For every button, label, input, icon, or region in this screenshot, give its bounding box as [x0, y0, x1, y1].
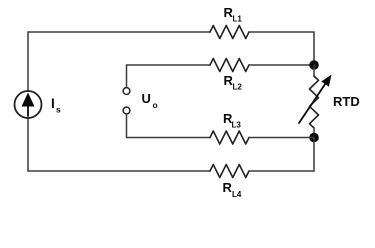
svg-text:R: R [223, 180, 233, 195]
svg-text:s: s [56, 105, 61, 115]
wire: left vertical top segment [27, 32, 29, 91]
label RL1 [224, 5, 243, 24]
svg-text:U: U [142, 91, 151, 106]
wire: node A to RTD top [313, 65, 315, 76]
wire: Uo top riser [126, 65, 128, 88]
current source Is [15, 91, 42, 118]
wire: right vertical node B to bottom rail [313, 138, 315, 172]
label RL2 [224, 73, 243, 92]
wire: RTD bottom to node B [313, 128, 315, 138]
wire: RL2 left lead from Uo riser [127, 64, 211, 66]
resistor RL3 [210, 131, 249, 144]
node B junction dot [309, 133, 319, 143]
label Is [51, 96, 61, 115]
svg-text:L3: L3 [232, 120, 242, 129]
wire: RL2 right lead to node A [249, 64, 314, 66]
terminal: Uo plus [123, 88, 130, 95]
label Uo [142, 91, 158, 110]
resistor RL4 [210, 165, 249, 178]
resistor RL1 [210, 26, 249, 39]
terminal: Uo minus [123, 107, 130, 114]
wire: bottom rail left of RL4 [28, 170, 210, 172]
svg-text:L1: L1 [233, 15, 243, 24]
wire: left vertical bottom segment [27, 118, 29, 171]
RTD variable resistor [299, 75, 332, 129]
node A junction dot [309, 60, 319, 70]
wire: RL3 left lead from Uo riser [127, 137, 211, 139]
wire: top rail right of RL1 [249, 31, 314, 33]
label RL4 [223, 180, 242, 199]
wire: top rail left of RL1 [28, 31, 210, 33]
svg-text:L4: L4 [232, 190, 242, 199]
svg-text:o: o [153, 100, 158, 110]
svg-text:I: I [51, 96, 55, 111]
label RL3 [223, 111, 241, 130]
resistor RL2 [210, 59, 249, 72]
svg-text:RTD: RTD [333, 94, 360, 109]
svg-text:L2: L2 [233, 83, 243, 92]
wire: RL3 right lead to node B [249, 137, 314, 139]
wire: right vertical from top rail to node A [313, 32, 315, 65]
wire: Uo bottom riser [126, 114, 128, 138]
wire: bottom rail right of RL4 [249, 170, 314, 172]
